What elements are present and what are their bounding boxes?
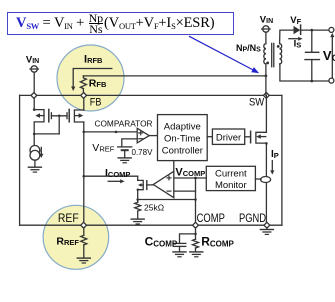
- wire: IC bottom edge: [20, 224, 282, 226]
- terminal VIN left: [30, 66, 38, 72]
- svg-text:VREF: VREF: [92, 142, 114, 154]
- wire: mirror gate tie: [33, 108, 67, 135]
- svg-text:RREF: RREF: [56, 235, 79, 247]
- svg-text:VF: VF: [290, 15, 301, 26]
- annotation: IRFB current arrow: [71, 69, 112, 92]
- wire: secondary bottom: [280, 64, 329, 81]
- node junction at VIN column: [31, 93, 37, 99]
- wire: top horizontal FB-SW line / IC top edge: [20, 94, 282, 96]
- battery VREF 0.78V: [118, 147, 132, 158]
- wire: current monitor to oval: [255, 178, 261, 180]
- wire: comparator - input to VREF: [122, 139, 137, 147]
- svg-text:RFB: RFB: [89, 78, 107, 90]
- wire: VCOMP line: [174, 177, 207, 180]
- resistor 25k: [135, 202, 141, 218]
- node REF: [81, 222, 87, 228]
- svg-text:PGND: PGND: [239, 211, 266, 225]
- ground (below 25k): [131, 219, 144, 224]
- svg-text:VCOMP: VCOMP: [175, 166, 205, 178]
- wire: oval to PGND: [265, 183, 267, 225]
- phase dot secondary: [277, 45, 280, 48]
- resistor RFB: [80, 76, 86, 93]
- current source I1: [30, 146, 43, 167]
- svg-text:IS: IS: [294, 39, 302, 50]
- svg-text:On-Time: On-Time: [164, 133, 201, 144]
- wire: IC left edge upper (FB down to Q2): [83, 95, 85, 110]
- svg-text:0.78V: 0.78V: [132, 148, 154, 157]
- op-amp U2 (error amp, points left): [153, 171, 174, 197]
- wire: left outer rail: [19, 95, 21, 225]
- node PGND: [264, 222, 270, 228]
- svg-text:COMP: COMP: [197, 211, 225, 225]
- resistor RCOMP: [193, 228, 199, 252]
- transistor M1 (buffer pMOS): [137, 176, 154, 202]
- svg-text:Adaptive: Adaptive: [164, 121, 201, 132]
- ground (below PGND): [260, 228, 273, 235]
- block: Adaptive On-Time Controller: [158, 115, 208, 161]
- transformer core: [272, 43, 274, 66]
- op-amp U1 comparator: [137, 128, 149, 143]
- wire: VCOMP vertical to COMP pin: [195, 178, 197, 225]
- annotation: IP arrow: [270, 161, 274, 175]
- wire: amp minus feedback wrap: [174, 190, 196, 192]
- block: Current Monitor: [206, 166, 255, 190]
- svg-text:Controller: Controller: [162, 145, 203, 156]
- wire: controller down to amp: [173, 161, 175, 172]
- wire: IC right edge: [281, 95, 283, 225]
- wire: VIN left terminal lead: [33, 72, 35, 94]
- formula box: [7, 12, 234, 36]
- svg-text:REF: REF: [58, 213, 79, 225]
- wire: controller to driver: [207, 136, 212, 138]
- ground (below RCOMP): [190, 252, 203, 257]
- annotation: IS arrow: [289, 37, 303, 41]
- ground (below RREF): [77, 258, 90, 263]
- svg-text:COMPARATOR: COMPARATOR: [95, 119, 153, 129]
- wire: ICOMP line: [83, 175, 138, 178]
- capacitor Cout: [305, 30, 319, 82]
- current sense oval: [261, 177, 271, 183]
- terminal VOUT+: [329, 27, 334, 32]
- node COMP: [193, 222, 199, 228]
- wire: driver to gate: [245, 136, 250, 138]
- transistor Q3 (output NMOS): [251, 131, 267, 143]
- node SW: [263, 93, 269, 99]
- svg-text:IP: IP: [271, 149, 279, 160]
- transistor Q2 (right PMOS of mirror): [67, 109, 84, 122]
- transformer T1 secondary winding: [280, 44, 282, 64]
- wire: diode to output: [301, 29, 329, 32]
- svg-text:Driver: Driver: [216, 132, 241, 143]
- ground (below current source): [28, 167, 41, 172]
- svg-text:FB: FB: [90, 96, 102, 108]
- annotation: blue arrow from formula to SW rail: [189, 36, 259, 73]
- block: Driver: [212, 129, 244, 144]
- svg-text:25kΩ: 25kΩ: [144, 202, 164, 212]
- annotation: VO arrow: [330, 33, 334, 78]
- wire: RFB top to SW rail: [83, 75, 266, 77]
- ground (below VREF battery): [118, 158, 131, 163]
- wire: feedback line to pMOS drain: [136, 198, 196, 201]
- wire: comparator + input: [83, 131, 138, 134]
- annotation: ICOMP arrow: [108, 179, 124, 183]
- ground (below CCOMP): [173, 252, 186, 257]
- terminal VOUT-: [329, 78, 334, 83]
- wire: SW node to Q3 drain: [265, 95, 267, 132]
- wire: comparator output: [149, 135, 157, 137]
- svg-text:SW: SW: [249, 97, 265, 109]
- svg-text:ICOMP: ICOMP: [105, 167, 130, 179]
- svg-text:Current: Current: [215, 168, 247, 179]
- capacitor CCOMP: [174, 243, 186, 251]
- svg-text:IRFB: IRFB: [84, 54, 103, 66]
- wire: IC left edge lower (Q2 down to REF): [83, 122, 85, 225]
- wire: primary bottom to SW: [265, 64, 268, 96]
- node FB: [81, 93, 87, 99]
- wire: COMP to CCOMP: [180, 233, 197, 243]
- terminal VIN right: [262, 26, 270, 44]
- diode D1: [294, 25, 301, 34]
- wire: Q3 source down: [265, 142, 268, 176]
- highlight ellipse FB area: [57, 45, 124, 111]
- resistor RREF: [81, 228, 87, 258]
- transistor Q1 (left PMOS of mirror): [34, 95, 51, 145]
- highlight ellipse REF area: [43, 205, 109, 269]
- phase dot primary: [266, 62, 269, 65]
- wire: secondary top to diode: [280, 30, 294, 43]
- transformer T1 primary winding: [264, 44, 266, 64]
- svg-text:Monitor: Monitor: [215, 180, 247, 191]
